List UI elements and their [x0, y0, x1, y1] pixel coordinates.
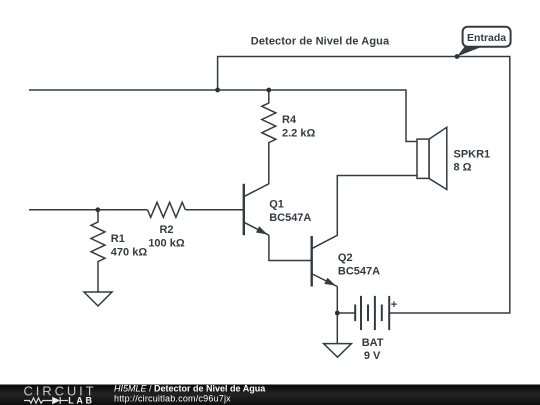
svg-text:Q2: Q2	[338, 252, 353, 264]
resistor R1	[91, 210, 105, 292]
Q1 emitter	[245, 223, 269, 236]
Q2 emitter	[312, 274, 337, 287]
svg-text:SPKR1: SPKR1	[454, 148, 491, 160]
wire: node to battery minus plate	[337, 312, 355, 314]
wire: top rail from riser to battery plus	[218, 57, 510, 314]
ground for R1	[84, 292, 112, 306]
junction at Entrada tap	[455, 54, 460, 59]
svg-text:R4: R4	[282, 114, 297, 126]
wire: Q2 emitter down to battery node	[336, 287, 338, 314]
junction at battery minus node	[335, 311, 340, 316]
svg-text:BC547A: BC547A	[338, 266, 380, 278]
svg-text:R2: R2	[159, 224, 173, 236]
svg-text:2.2 kΩ: 2.2 kΩ	[282, 128, 315, 140]
Q2 base bar	[311, 236, 313, 287]
svg-text:8 Ω: 8 Ω	[454, 162, 472, 174]
svg-text:HI5MLE / Detector de Nivel de: HI5MLE / Detector de Nivel de Agua	[114, 384, 266, 394]
long plate 2	[374, 296, 376, 330]
svg-text:Detector de Nivel de Agua: Detector de Nivel de Agua	[251, 36, 390, 48]
footer bar	[0, 385, 540, 405]
node Entrada flag	[457, 27, 511, 57]
wire: Q1 emitter to Q2 base	[269, 235, 312, 260]
svg-text:LAB: LAB	[68, 395, 94, 405]
Q2 emitter arrow	[324, 278, 336, 286]
long plate 3	[388, 296, 390, 330]
wire: base rail left segment	[29, 209, 148, 211]
svg-text:BC547A: BC547A	[269, 212, 311, 224]
svg-text:Q1: Q1	[269, 199, 284, 211]
svg-text:470 kΩ: 470 kΩ	[111, 247, 148, 259]
svg-text:9 V: 9 V	[364, 350, 381, 362]
svg-text:+: +	[391, 299, 397, 311]
footer logo diode triangle	[52, 397, 60, 404]
battery BAT	[355, 296, 389, 330]
junction at R1 top	[95, 207, 100, 212]
short plate 3	[381, 305, 383, 322]
long plate 1	[360, 296, 362, 330]
wire: upper horizontal rail y=90 to speaker top pin	[29, 90, 417, 142]
ground for battery	[324, 313, 352, 357]
Q1 base bar	[243, 184, 245, 235]
svg-text:100 kΩ: 100 kΩ	[148, 238, 185, 250]
svg-text:http://circuitlab.com/c96u7jx: http://circuitlab.com/c96u7jx	[114, 393, 231, 403]
junction at R4 top	[266, 88, 271, 93]
transistor Q2	[312, 176, 417, 287]
footer logo wire-resistor-diode glyph	[24, 397, 68, 404]
resistor R4	[262, 90, 276, 160]
speaker body	[417, 139, 429, 178]
speaker SPKR1	[417, 127, 447, 189]
svg-text:BAT: BAT	[362, 337, 384, 349]
short plate 1	[354, 305, 356, 322]
speaker cone	[429, 127, 447, 189]
junction at riser top rail	[215, 88, 220, 93]
short plate 2	[367, 305, 369, 322]
Q2 collector wire to speaker bottom pin	[312, 176, 417, 249]
svg-text:R1: R1	[111, 233, 125, 245]
transistor Q1	[244, 160, 269, 235]
wire: base rail right segment to Q1 base	[185, 209, 243, 211]
svg-text:Entrada: Entrada	[467, 32, 506, 44]
resistor R2	[148, 202, 186, 217]
Q1 emitter arrow	[256, 226, 268, 234]
Q1 collector wire	[245, 160, 269, 196]
